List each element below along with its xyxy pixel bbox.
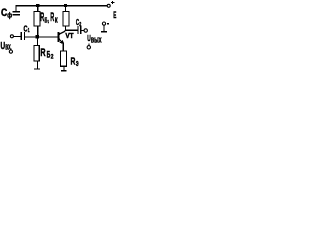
svg-text:ф: ф (7, 10, 12, 19)
wire RБ1 top lead (37, 6, 38, 12)
wire C2 to output terminal (81, 30, 84, 31)
terminal Uвых upper output (84, 29, 87, 32)
resistor Rк (63, 12, 69, 26)
terminal Uвх upper input (10, 35, 13, 38)
wire Rэ bottom lead (63, 66, 64, 70)
label Uвх (1, 41, 12, 53)
wire RБ2 bottom lead (37, 61, 38, 69)
terminal -E (101, 22, 107, 32)
node junction of Rк with rail (64, 4, 67, 7)
svg-text:VT: VT (65, 31, 74, 40)
label RБ2 (40, 47, 53, 61)
label - (107, 23, 109, 24)
resistor RБ1 (34, 12, 40, 26)
node junction of RБ1 with rail (36, 4, 39, 7)
svg-text:R: R (40, 47, 45, 59)
svg-text:E: E (113, 10, 116, 20)
resistor Rэ (60, 51, 66, 66)
wire top supply rail (15, 5, 107, 6)
label C2 (76, 18, 81, 28)
label C1 (24, 25, 30, 35)
label RБ1 (40, 12, 49, 24)
svg-text:э: э (76, 58, 79, 68)
resistor RБ2 (34, 46, 39, 61)
capacitor C1 (21, 32, 25, 40)
terminal Uвх lower input (9, 48, 12, 53)
terminal Uвых lower output (87, 43, 90, 49)
transistor VT (58, 31, 66, 44)
wire emitter lead (63, 43, 64, 51)
capacitor Cф (13, 6, 20, 16)
wire RБ1 bottom lead (37, 26, 38, 36)
wire Rк top lead (65, 6, 66, 12)
svg-text:вых: вых (91, 34, 102, 45)
label Rэ (71, 57, 79, 68)
wire collector to C2 (65, 30, 78, 31)
label Cф (1, 7, 12, 19)
node Rэ common stub (61, 70, 66, 71)
label + (111, 1, 114, 4)
svg-text:2: 2 (51, 54, 54, 61)
capacitor C2 (78, 26, 82, 34)
terminal +E on rail (107, 4, 110, 7)
wire base wire C1 to VT (25, 36, 58, 37)
label Rк (50, 12, 58, 24)
wire RБ2 top lead (37, 38, 38, 46)
svg-text:2: 2 (79, 22, 81, 28)
node RБ2 common stub (34, 68, 40, 69)
svg-text:1: 1 (28, 28, 30, 34)
label Uвых (87, 33, 102, 45)
svg-text:к: к (55, 14, 58, 24)
node base divider junction (36, 35, 40, 39)
wire Rк bottom lead collector (65, 26, 66, 31)
wire input terminal to C1 (14, 36, 21, 37)
